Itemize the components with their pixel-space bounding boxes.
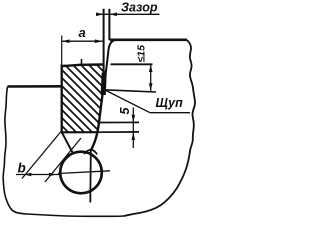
svg-text:Зазор: Зазор xyxy=(121,1,158,15)
dimension a: right arrow xyxy=(95,39,103,43)
feeler gauge left line xyxy=(103,9,105,90)
dimension 5: dimension line xyxy=(132,108,134,149)
dimension <=15: bottom arrow xyxy=(149,83,153,91)
feeler gauge right line xyxy=(108,9,110,40)
right part top surface xyxy=(110,38,187,41)
wedge bottom / groove bottom xyxy=(61,131,98,133)
dimension b: right arrow xyxy=(49,173,57,177)
svg-text:а: а xyxy=(79,25,86,40)
Зазор arrow right (points left at gap) xyxy=(110,13,117,17)
Зазор leader line xyxy=(96,13,160,15)
circle horizontal centerline xyxy=(58,171,110,174)
dimension a: line xyxy=(62,40,103,42)
small tick above wedge top xyxy=(81,59,83,65)
groove root line down to relief hole xyxy=(91,88,104,151)
dimension b: oblique extension line 1 xyxy=(22,132,61,179)
dimension <=15: top arrow xyxy=(149,65,153,73)
Щуп leader slant xyxy=(104,90,150,113)
dimension <=15: bottom extension line xyxy=(104,90,156,92)
root-to-hole flare right xyxy=(91,150,97,155)
Зазор arrow left (points right at gap) xyxy=(96,13,103,17)
hatched wedge (cross-sectioned tongue) xyxy=(0,40,177,145)
left part top surface xyxy=(8,85,62,88)
root-to-hole flare left xyxy=(84,150,92,155)
dimension b: left arrow xyxy=(24,173,32,177)
dimension 5: lower arrow pointing up xyxy=(132,132,136,140)
right part outline (freehand border) xyxy=(124,40,195,216)
relief hole (circle) xyxy=(60,152,102,194)
gauge tip blob (gap pinch) xyxy=(101,70,107,95)
dimension <=15: top extension line xyxy=(111,63,153,65)
dimension 5: top extension line xyxy=(100,121,139,123)
dimension b: dimension line xyxy=(16,174,59,176)
dimension 5: bottom extension line xyxy=(98,131,139,133)
svg-text:≤15: ≤15 xyxy=(136,45,148,63)
groove lower-left wall to hole xyxy=(62,133,73,153)
dimension b: oblique extension line 2 xyxy=(45,138,81,182)
svg-text:5: 5 xyxy=(118,107,132,115)
dimension a: left arrow xyxy=(62,39,70,43)
dimension <=15: dimension line xyxy=(150,64,152,91)
wedge left edge / groove left wall xyxy=(61,65,63,133)
left part outline (freehand border) xyxy=(3,87,124,217)
svg-text:b: b xyxy=(18,161,26,176)
dimension 5: upper arrow pointing down xyxy=(132,115,136,123)
wedge top edge xyxy=(62,65,103,67)
hole axis line through circle xyxy=(89,151,92,203)
right part left edge (slanted into gap) xyxy=(104,41,114,88)
svg-text:Щуп: Щуп xyxy=(156,96,184,110)
dimension a: left extension line xyxy=(61,36,63,65)
Щуп leader shelf xyxy=(150,112,190,114)
